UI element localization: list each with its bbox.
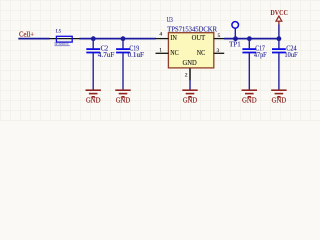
U3 pin 3 (214, 52, 225, 54)
fuse value label (55, 44, 70, 47)
svg-text:U3: U3 (167, 17, 174, 24)
power port DVCC arrow (276, 16, 282, 21)
ground symbol under C19 (115, 90, 130, 97)
svg-text:GND: GND (183, 97, 198, 105)
svg-text:Cell+: Cell+ (19, 31, 34, 39)
power port DVCC stem (278, 21, 280, 25)
wire C19 bottom leg (122, 53, 124, 90)
junction node at C19 (121, 36, 126, 41)
svg-text:GND: GND (86, 97, 101, 105)
svg-text:GND: GND (242, 97, 257, 105)
wire U3 pin2 to ground (189, 80, 191, 90)
wire C17 top leg (248, 39, 250, 49)
wire DVCC vertical (278, 24, 280, 38)
svg-text:5: 5 (218, 33, 221, 39)
wire C24 top leg (278, 39, 280, 49)
svg-text:2: 2 (185, 73, 188, 79)
capacitor C2 plates (86, 49, 100, 52)
junction node at C17 (247, 36, 252, 41)
svg-text:0.1uF: 0.1uF (128, 52, 145, 59)
test point TP1 circle (232, 22, 239, 29)
wire C24 bottom leg (278, 53, 280, 90)
wire U3 out to DVCC (224, 38, 280, 40)
ground symbol under U3 (182, 90, 197, 97)
svg-text:DVCC: DVCC (270, 10, 288, 17)
wire Cell+ to fuse (18, 38, 49, 40)
wire C19 top leg (122, 39, 124, 49)
junction node at TP1 (233, 36, 238, 41)
junction node at C2 (91, 36, 96, 41)
U3 pin 1 (156, 52, 169, 54)
wire TP1 stem (234, 28, 236, 38)
svg-text:OUT: OUT (192, 34, 206, 42)
ground symbol under C24 (271, 90, 286, 97)
svg-text:L5: L5 (56, 29, 62, 35)
capacitor C19 plates (116, 49, 130, 52)
U3 pin 2 (189, 68, 191, 80)
wire C17 bottom leg (248, 53, 250, 90)
fuse F1 element line and pins (49, 38, 80, 40)
svg-text:GND: GND (272, 97, 287, 105)
svg-text:47pF: 47pF (254, 52, 267, 59)
U3 pin 5 (214, 38, 225, 40)
svg-text:3: 3 (217, 48, 220, 54)
wire fuse to U3 pin 4 (79, 38, 156, 40)
ground symbol under C2 (86, 90, 101, 97)
svg-text:1: 1 (159, 48, 162, 54)
capacitor C24 plates (272, 49, 286, 52)
svg-text:IN: IN (170, 34, 177, 42)
svg-text:10uF: 10uF (285, 52, 298, 59)
svg-text:GND: GND (183, 59, 197, 67)
svg-text:GND: GND (116, 97, 131, 105)
svg-text:NC: NC (197, 49, 206, 57)
svg-text:4.7uF: 4.7uF (98, 52, 115, 59)
svg-text:NC: NC (170, 49, 179, 57)
wire C2 top leg (92, 39, 94, 49)
U3 pin 4 (156, 38, 169, 40)
svg-text:4: 4 (159, 32, 162, 38)
wire C2 bottom leg (92, 53, 94, 90)
capacitor C17 plates (242, 49, 256, 52)
junction node at C24 / DVCC (277, 36, 282, 41)
fuse body (56, 36, 72, 42)
svg-text:TP1: TP1 (229, 41, 241, 48)
regulator U3 body (168, 33, 213, 68)
ground symbol under C17 (242, 90, 257, 97)
